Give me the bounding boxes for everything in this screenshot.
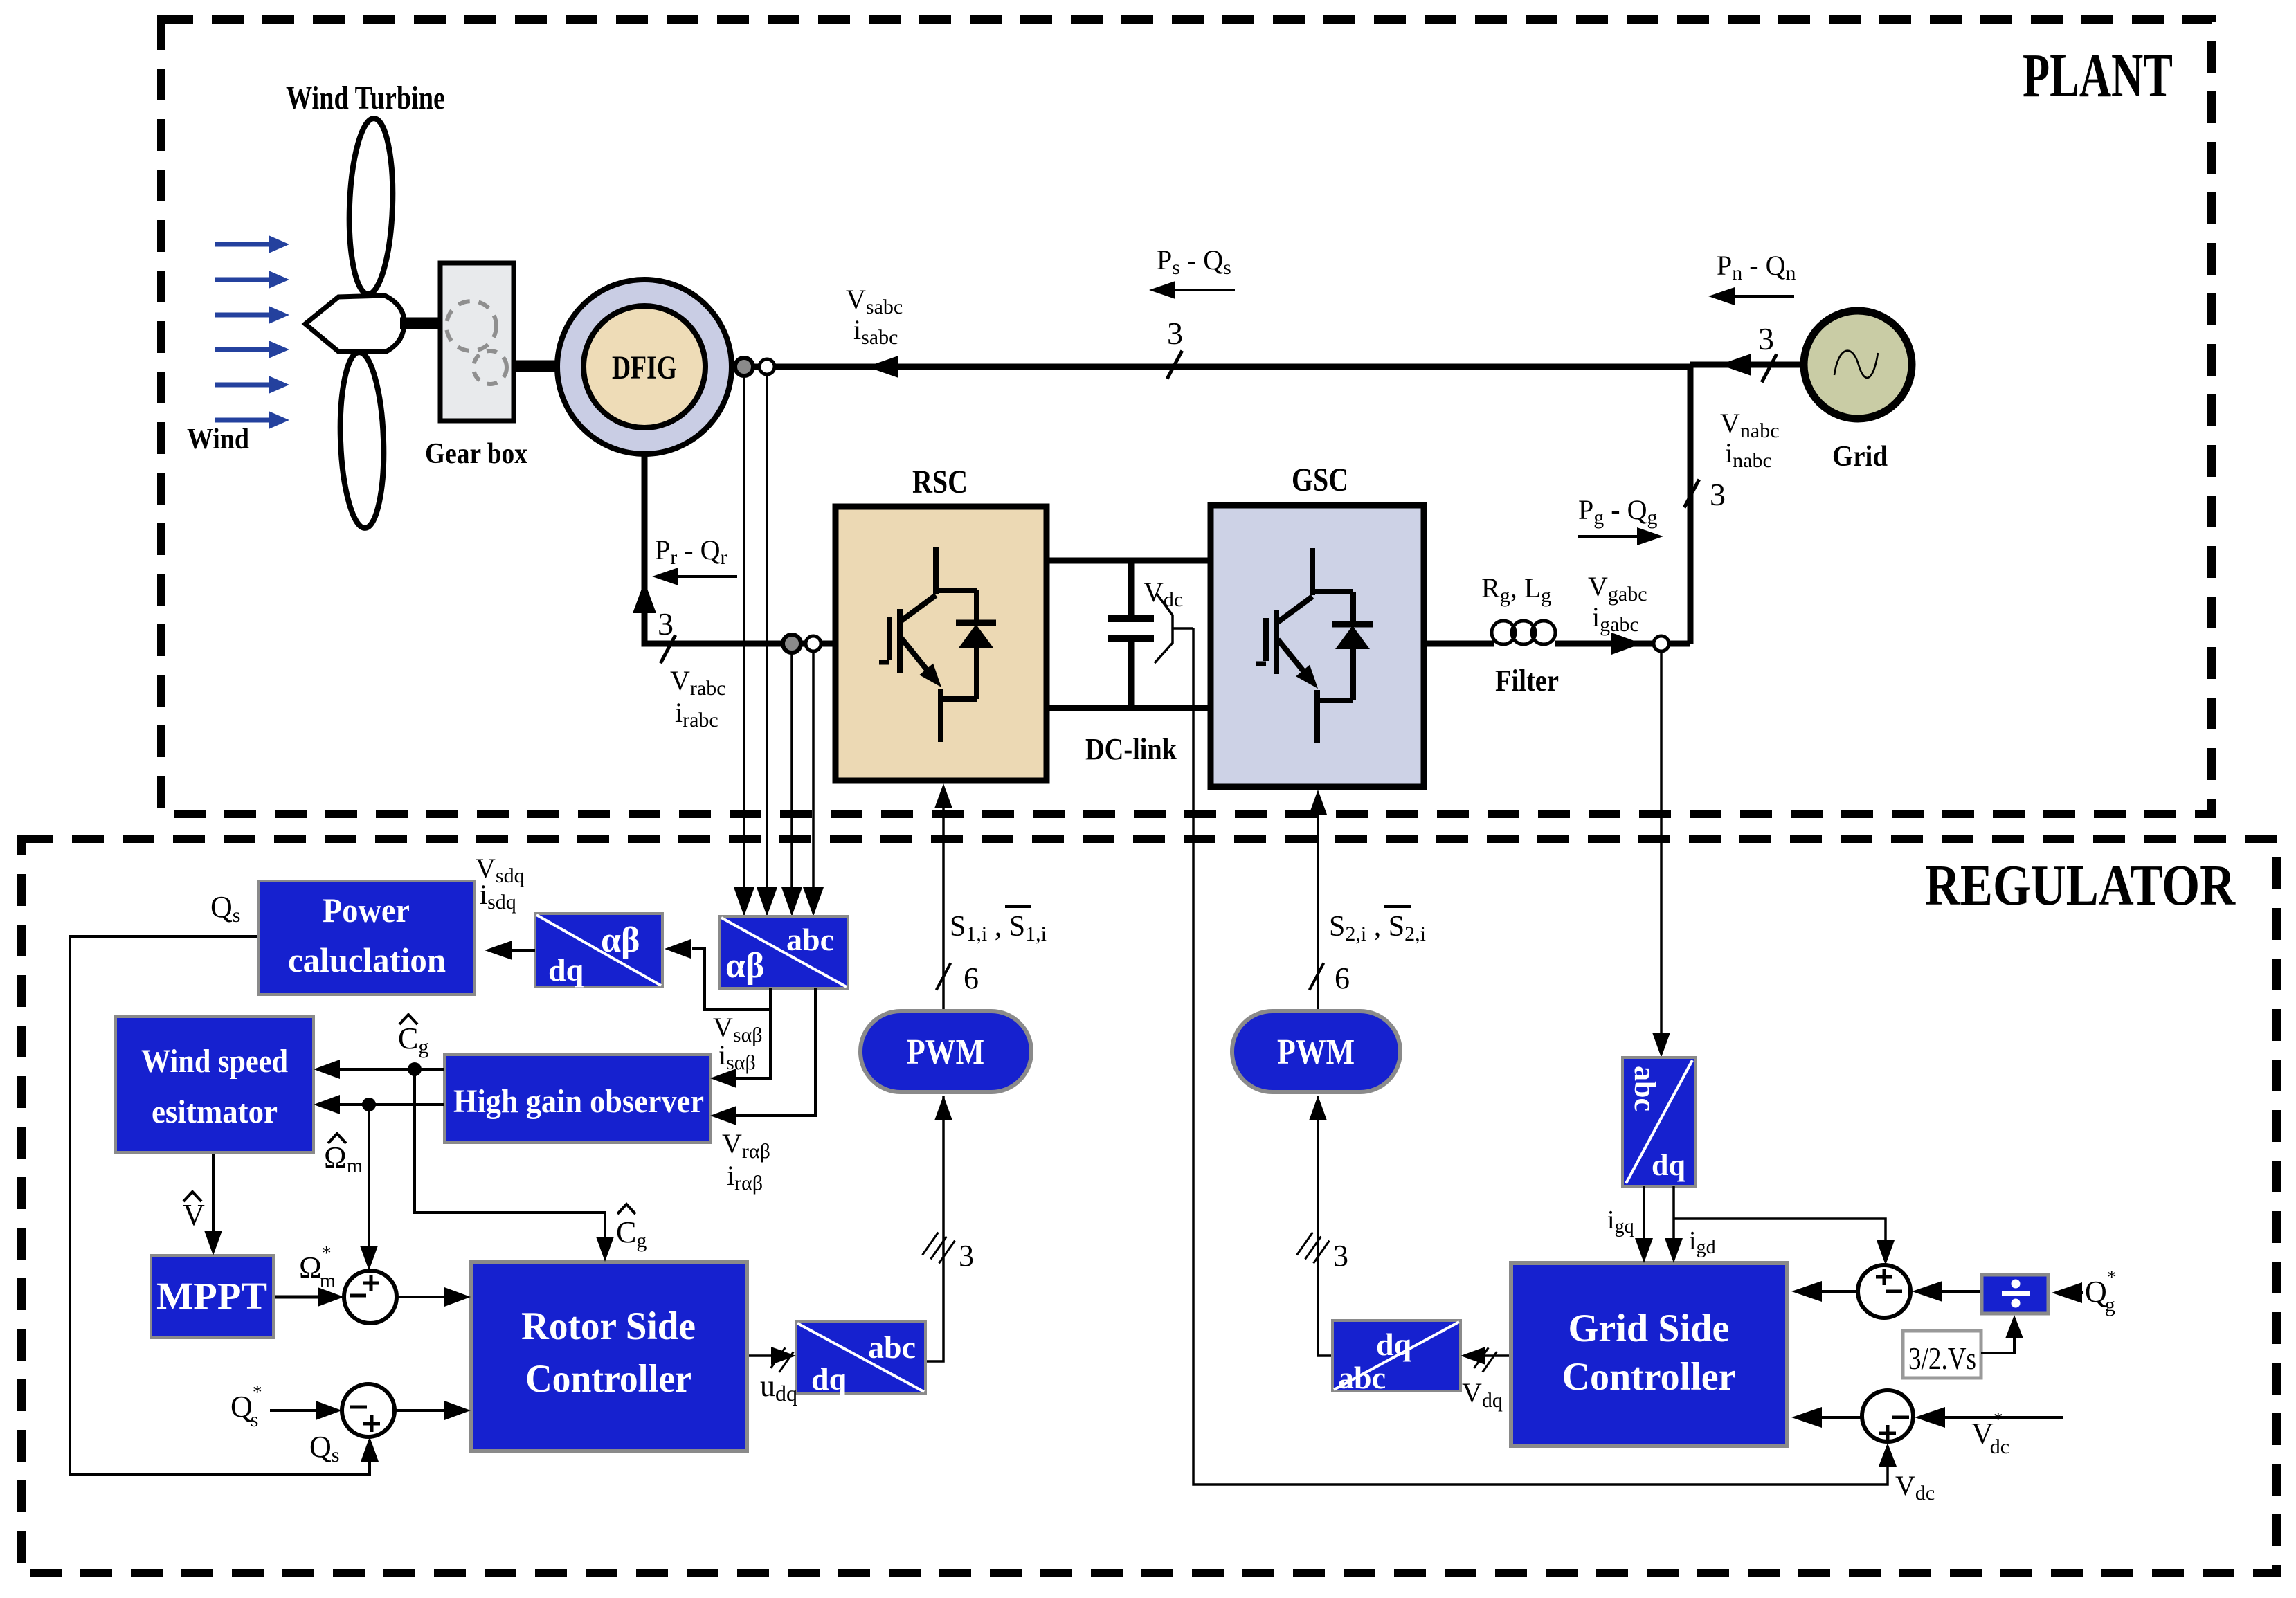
filter inductor — [1492, 621, 1515, 644]
wire divide to J3 — [1935, 1290, 1982, 1293]
Vdq arrow from GSCtrl — [1485, 1354, 1511, 1357]
triple slash 3 (RSC) — [923, 1233, 939, 1255]
svg-text:Pg - Qg: Pg - Qg — [1578, 494, 1657, 529]
svg-text:Rotor Side: Rotor Side — [521, 1305, 696, 1348]
rotor measurement wire ir — [812, 651, 815, 891]
Vdc* arrow — [1938, 1416, 2063, 1419]
svg-text:GSC: GSC — [1292, 462, 1348, 498]
svg-text:dq: dq — [548, 952, 584, 988]
svg-text:6: 6 — [1335, 961, 1350, 995]
abc to dq block (Vdq) — [1332, 1320, 1461, 1391]
node rotor tap (open) — [806, 636, 821, 651]
wire Cg to Rotor Side Controller — [415, 1069, 605, 1249]
wire igd to GSCtrl — [1672, 1186, 1675, 1240]
3/2.Vs box — [1903, 1331, 1981, 1378]
wire igq to GSCtrl — [1643, 1186, 1645, 1240]
svg-text:Wind: Wind — [187, 424, 249, 455]
dq to abc block (rotor) — [796, 1322, 925, 1393]
wire PCC to abc-dq block — [1660, 651, 1663, 1034]
stator measurement wire Vs — [743, 376, 745, 891]
Pn-Qn arrow — [1721, 295, 1794, 298]
Rotor Side Controller box — [471, 1262, 747, 1451]
triple slash 3 (GSC) — [1297, 1233, 1313, 1255]
svg-text:Grid: Grid — [1832, 441, 1888, 473]
svg-text:Ps - Qs: Ps - Qs — [1157, 244, 1231, 279]
svg-text:abc: abc — [1628, 1066, 1662, 1111]
svg-text:caluclation: caluclation — [288, 941, 446, 979]
divide block — [1982, 1275, 2048, 1314]
Wind speed estimator box — [116, 1017, 314, 1152]
slash 3-phase rotor — [660, 635, 676, 664]
svg-text:Wind speed: Wind speed — [141, 1043, 288, 1080]
rotor wire DFIG to RSC — [644, 454, 835, 644]
svg-text:Gear box: Gear box — [425, 438, 527, 470]
wire Qs* to J2 — [270, 1409, 329, 1412]
svg-text:dq: dq — [811, 1361, 847, 1397]
svg-text:V: V — [183, 1198, 205, 1232]
wire J4 to GSCtrl — [1804, 1416, 1862, 1419]
svg-text:Filter: Filter — [1495, 664, 1559, 698]
svg-text:High gain observer: High gain observer — [453, 1083, 704, 1120]
stator wire DFIG to grid corner — [732, 364, 1690, 370]
wire J3 to GSCtrl — [1804, 1290, 1858, 1293]
svg-text:abc: abc — [1338, 1360, 1386, 1395]
shaft hub to gearbox — [400, 318, 443, 329]
wire dq-ab to power calc — [496, 949, 535, 952]
svg-text:abc: abc — [868, 1329, 916, 1365]
REGULATOR boundary — [21, 839, 2277, 1573]
svg-text:RSC: RSC — [912, 464, 968, 500]
slash 3-phase g — [1684, 480, 1699, 508]
igd branch to J3 — [1674, 1219, 1886, 1253]
Vdc feedback wire — [1193, 628, 1888, 1484]
slash 6 (S2) — [1310, 963, 1324, 990]
svg-text:Rg, Lg: Rg, Lg — [1481, 572, 1551, 607]
gear wheel large — [446, 301, 496, 351]
gear wheel small — [473, 351, 507, 384]
wind turbine hub — [305, 296, 404, 352]
DC-link top bus — [1047, 558, 1211, 564]
stator measurement wire is — [766, 374, 768, 891]
svg-text:αβ: αβ — [725, 946, 764, 986]
High gain observer box — [444, 1055, 710, 1143]
summing junction J4 — [1862, 1390, 1913, 1442]
node rotor tap (filled) — [783, 635, 801, 653]
u_dq arrow into dq-abc — [748, 1354, 784, 1357]
wire abc-ab to dq-ab — [692, 949, 770, 1010]
svg-text:esitmator: esitmator — [152, 1093, 278, 1130]
svg-text:3: 3 — [658, 606, 674, 642]
svg-text:3/2.Vs: 3/2.Vs — [1908, 1341, 1976, 1376]
svg-text:3: 3 — [1710, 477, 1726, 512]
wind turbine blade lower — [338, 352, 387, 529]
rotor power-flow arrow up — [633, 581, 656, 613]
Pg-Qg arrow — [1578, 535, 1649, 538]
svg-text:dq: dq — [1376, 1327, 1412, 1362]
wire PWM2 to GSC gates — [1317, 810, 1319, 1011]
svg-text:PLANT: PLANT — [2023, 42, 2173, 110]
wire Omega_m to J1 — [368, 1105, 370, 1246]
DC-link capacitor — [1128, 561, 1135, 616]
wire dq-abc to PWM1 — [925, 1096, 943, 1361]
PWM2 block — [1232, 1011, 1400, 1092]
abc to alphabeta block — [720, 916, 848, 988]
MPPT box — [151, 1255, 273, 1338]
summing junction J1 — [344, 1271, 397, 1323]
node stator tap (open) — [759, 359, 775, 374]
node stator tap (filled) — [735, 358, 753, 376]
svg-text:dq: dq — [1652, 1148, 1685, 1182]
stator power-flow arrow — [867, 356, 898, 378]
svg-text:Pr - Qr: Pr - Qr — [655, 534, 727, 569]
summing junction J2 — [342, 1384, 395, 1437]
wire observer Omega to estimator — [326, 1103, 444, 1106]
DC-link bottom bus — [1047, 705, 1211, 711]
svg-text:REGULATOR: REGULATOR — [1925, 853, 2236, 918]
svg-text:Pn - Qn: Pn - Qn — [1717, 250, 1796, 284]
RSC IGBT — [879, 547, 996, 742]
wire filter to corner — [1555, 641, 1690, 647]
svg-text:PWM: PWM — [907, 1033, 984, 1072]
shaft gearbox to DFIG — [514, 361, 558, 372]
wire J1 to RSC — [397, 1296, 458, 1298]
svg-text:Power: Power — [323, 891, 410, 929]
dq to alphabeta block — [535, 914, 662, 987]
svg-text:DFIG: DFIG — [612, 349, 677, 386]
PWM1 block — [860, 1011, 1031, 1092]
node Cg — [408, 1062, 422, 1076]
Pr-Qr arrow — [665, 575, 737, 578]
slash 6 (S1) — [937, 963, 951, 990]
svg-text:3: 3 — [959, 1239, 974, 1273]
GSC IGBT — [1256, 548, 1373, 743]
svg-text:DC-link: DC-link — [1085, 732, 1177, 766]
summing junction J3 — [1858, 1265, 1910, 1318]
DFIG machine — [557, 280, 732, 454]
node Omega_m — [362, 1098, 376, 1111]
slash 3-phase stator — [1167, 351, 1182, 379]
wind turbine blade upper — [347, 118, 396, 295]
wire J2 to RSC — [395, 1409, 458, 1412]
GSC converter box — [1211, 505, 1424, 787]
svg-text:Wind Turbine: Wind Turbine — [286, 80, 445, 116]
svg-text:3: 3 — [1333, 1239, 1348, 1273]
wire Vs-alphabeta to observer — [722, 1010, 770, 1078]
svg-text:PWM: PWM — [1277, 1033, 1355, 1072]
svg-text:abc: abc — [786, 922, 834, 957]
Qs feedback wire — [70, 936, 370, 1474]
gear box — [440, 263, 514, 421]
wind arrows — [215, 242, 270, 247]
svg-text:Grid Side: Grid Side — [1569, 1307, 1730, 1350]
Vdc probe — [1155, 594, 1173, 663]
grid source circle — [1804, 311, 1912, 419]
svg-text:Controller: Controller — [525, 1357, 691, 1401]
PLANT boundary — [161, 19, 2212, 814]
abc to dq block (grid currents) — [1622, 1057, 1696, 1186]
slash 3-phase n — [1762, 354, 1777, 383]
Power calculation box — [259, 881, 475, 995]
wire MPPT to J1 — [273, 1296, 332, 1299]
wire 3/2Vs to divide — [1981, 1330, 2014, 1353]
V hat arrow to MPPT — [212, 1152, 215, 1243]
rotor measurement wire Vr — [790, 653, 793, 891]
RSC converter box — [835, 507, 1047, 781]
Qg* arrow — [2072, 1291, 2083, 1294]
svg-text:3: 3 — [1167, 316, 1183, 351]
svg-text:MPPT: MPPT — [156, 1275, 267, 1317]
wire observer Cg to estimator — [326, 1068, 444, 1071]
wire GSC to filter — [1424, 641, 1494, 647]
wire PWM1 to RSC gates — [942, 804, 945, 1011]
svg-text:αβ: αβ — [601, 920, 640, 960]
wire Vdq block to PWM2 — [1318, 1096, 1332, 1356]
wire grid to corner — [1690, 362, 1803, 368]
Grid Side Controller box — [1511, 1263, 1787, 1446]
svg-text:6: 6 — [964, 961, 979, 995]
wire Vr-alphabeta to observer — [722, 988, 815, 1116]
node PCC tap (open) — [1654, 636, 1669, 651]
svg-text:Controller: Controller — [1562, 1355, 1736, 1399]
svg-text:3: 3 — [1758, 321, 1774, 356]
wire corner up to stator line — [1688, 364, 1694, 644]
Ps-Qs arrow — [1161, 289, 1235, 291]
